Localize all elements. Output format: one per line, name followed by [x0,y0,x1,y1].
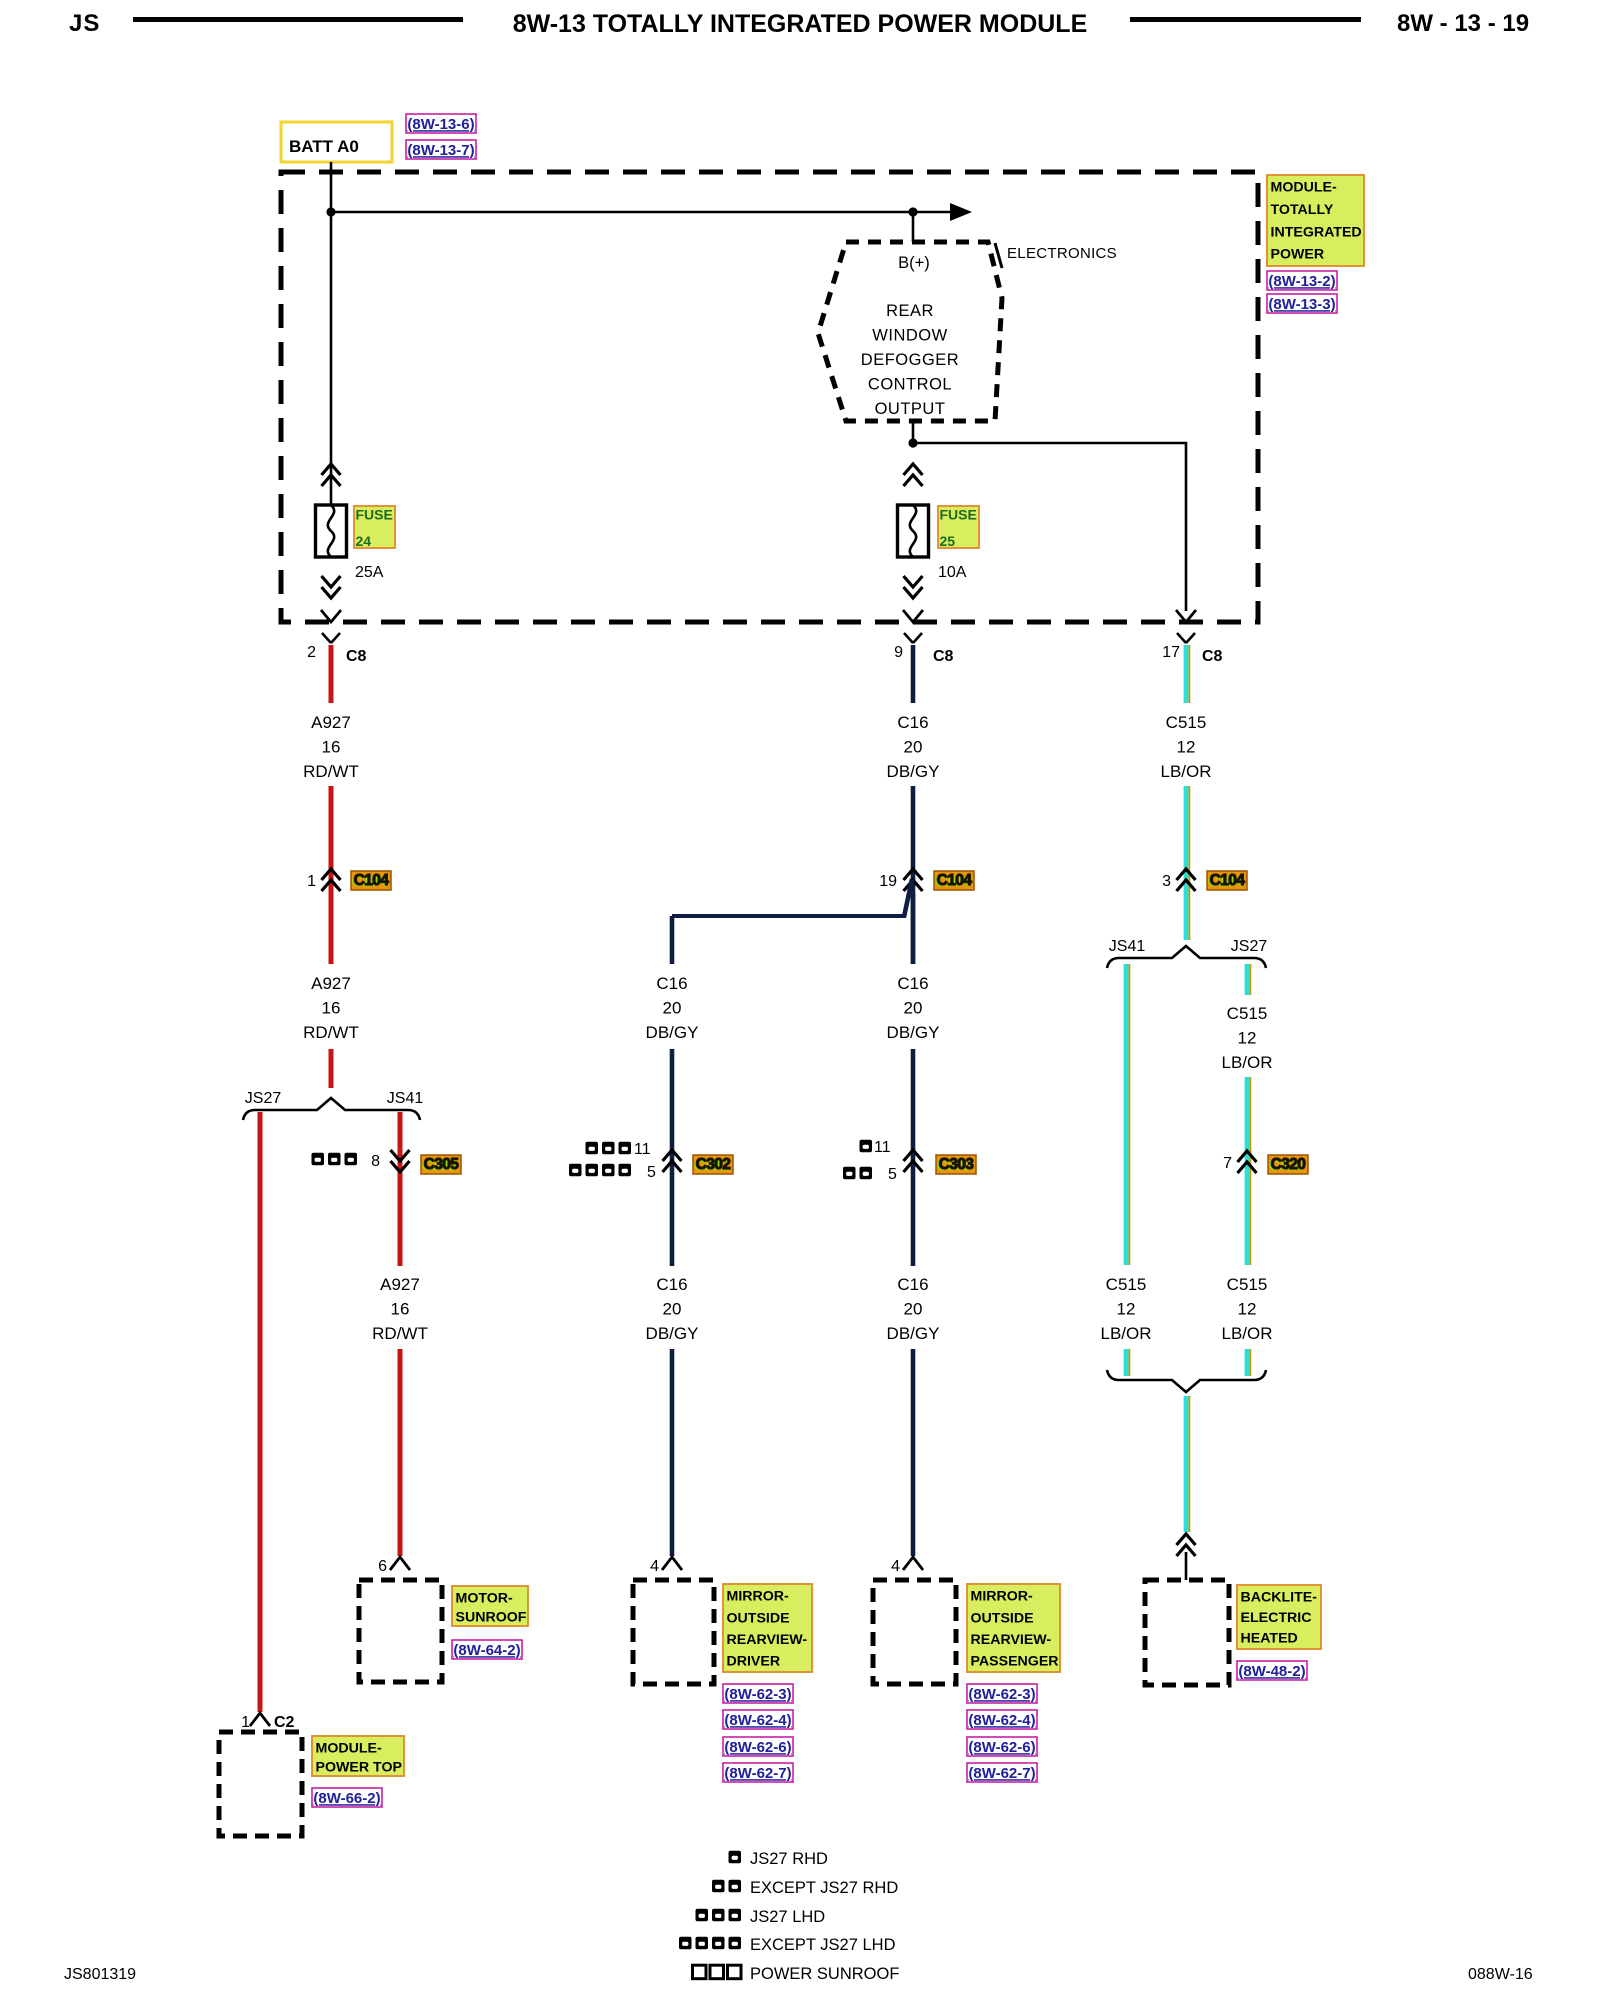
svg-text:(8W-66-2): (8W-66-2) [313,1790,380,1807]
wire C16 driver leg to C302 [670,1049,675,1266]
wire label C16 20 DB/GY [887,1275,940,1343]
option symbol 3-box JS27 LHD [586,1142,632,1155]
wire C16 from C8 pin 9 [911,645,916,703]
svg-text:C8: C8 [1202,648,1223,665]
svg-text:ELECTRONICS: ELECTRONICS [1007,245,1117,262]
svg-text:JS27 LHD: JS27 LHD [750,1908,825,1926]
wire junction to defogger output [912,212,915,242]
battery feed box BATT A0 [281,122,392,162]
wire C515 JS41 leg [1126,964,1129,1265]
legend symbol EXCEPT JS27 RHD [712,1880,741,1893]
in-line connector C104 pin 1 chevron [322,869,341,891]
in-line connector chevron at backlite [1177,1534,1196,1556]
device label MIRROR-OUTSIDE REARVIEW-PASSENGER [967,1584,1060,1672]
svg-text:A927: A927 [311,713,351,732]
option symbol 3-box JS27 LHD [312,1153,358,1166]
svg-text:20: 20 [663,999,682,1018]
svg-text:DB/GY: DB/GY [887,1324,940,1343]
svg-text:3: 3 [1162,873,1171,890]
connector C2 pin 1 at power top module [241,1713,294,1731]
link 8W-64-2 [452,1640,522,1659]
svg-text:MIRROR-: MIRROR- [971,1589,1034,1605]
fuse 24 [316,505,347,557]
chevron below fuse 24 [322,576,341,598]
connector label C104 [934,871,974,890]
svg-text:16: 16 [322,999,341,1018]
svg-text:19: 19 [879,873,897,890]
svg-text:5: 5 [647,1164,656,1181]
wire label C515 12 LB/OR [1221,1004,1272,1072]
svg-text:MODULE-: MODULE- [1271,180,1337,196]
wire C515 from C8 pin 17 [1186,645,1189,703]
svg-text:DEFOGGER: DEFOGGER [861,351,959,369]
svg-text:JS27: JS27 [245,1090,282,1107]
svg-text:CONTROL: CONTROL [868,376,952,394]
device label MIRROR-OUTSIDE REARVIEW-DRIVER [723,1584,812,1672]
connector C8 pin 17 [1162,633,1222,665]
legend symbol JS27 RHD [729,1851,742,1864]
connector label C104 [1207,871,1247,890]
wire into backlite grid [1185,1552,1188,1580]
wire label C16 20 DB/GY [887,713,940,781]
svg-text:C16: C16 [656,1275,687,1294]
svg-text:4: 4 [891,1558,900,1575]
svg-text:TOTALLY: TOTALLY [1271,202,1334,218]
wire C515 to backlite [1186,1396,1189,1532]
svg-text:EXCEPT JS27 LHD: EXCEPT JS27 LHD [750,1936,896,1954]
svg-text:C515: C515 [1166,713,1207,732]
svg-text:SUNROOF: SUNROOF [456,1610,527,1626]
option symbol 2-box EXCEPT JS27 RHD [843,1167,872,1180]
wire label A927 16 RD/WT [303,974,359,1042]
svg-text:REAR: REAR [886,302,934,320]
svg-text:C305: C305 [424,1156,460,1173]
svg-text:(8W-62-7): (8W-62-7) [724,1765,791,1782]
link 8W-62-4 [723,1710,793,1729]
BACKLITE-ELECTRIC HEATED device box [1145,1580,1229,1685]
link 8W-62-6 [723,1737,793,1756]
svg-text:C104: C104 [1210,872,1246,889]
connector pin 4 at driver mirror [650,1557,682,1575]
svg-text:C16: C16 [897,713,928,732]
svg-text:4: 4 [650,1558,659,1575]
wire label C515 12 LB/OR [1221,1275,1272,1343]
svg-text:12: 12 [1117,1300,1136,1319]
svg-text:OUTSIDE: OUTSIDE [971,1610,1034,1626]
svg-text:REARVIEW-: REARVIEW- [727,1632,808,1648]
svg-text:8W-13 TOTALLY INTEGRATED POWER: 8W-13 TOTALLY INTEGRATED POWER MODULE [513,10,1088,38]
wire A927 JS41 leg [398,1112,403,1266]
svg-text:FUSE: FUSE [940,507,977,523]
module label MODULE-TOTALLY INTEGRATED POWER [1267,175,1364,266]
svg-text:(8W-62-6): (8W-62-6) [968,1739,1035,1756]
svg-text:8W - 13 - 19: 8W - 13 - 19 [1397,10,1529,37]
svg-text:C8: C8 [933,648,954,665]
svg-text:20: 20 [904,999,923,1018]
connector label C305 [421,1155,461,1174]
option symbol 4-box EXCEPT JS27 LHD [569,1164,631,1177]
svg-text:25A: 25A [355,564,384,581]
svg-text:JS: JS [69,10,100,37]
svg-text:11: 11 [634,1141,651,1158]
wire C16 to C104 [911,786,916,964]
fuse 25 [898,505,929,557]
svg-text:POWER TOP: POWER TOP [316,1760,402,1776]
svg-text:MIRROR-: MIRROR- [727,1589,790,1605]
device label BACKLITE-ELECTRIC HEATED [1237,1585,1321,1649]
wire branch to C8 pin 17 [913,443,1186,611]
in-line connector C104 pin 19 chevron [904,869,923,891]
svg-text:7: 7 [1223,1155,1232,1172]
wire C515 JS27 leg lower stub [1247,1349,1250,1376]
arrowhead into C8 pin 2 [321,610,341,622]
chevron above fuse 25 [904,464,923,486]
svg-text:(8W-64-2): (8W-64-2) [453,1642,520,1659]
svg-text:BATT A0: BATT A0 [289,137,359,156]
module Totally Integrated Power Module dashed outline [281,172,1258,622]
wire C515 JS41 leg lower stub [1126,1349,1129,1376]
svg-text:DB/GY: DB/GY [646,1324,699,1343]
wire A927 to C104 [329,786,334,964]
svg-text:LB/OR: LB/OR [1221,1053,1272,1072]
svg-text:REARVIEW-: REARVIEW- [971,1632,1052,1648]
in-line connector C303 chevron [904,1150,923,1172]
wire C515 to C104 [1186,786,1189,940]
wire C16 to passenger mirror [911,1349,916,1556]
svg-text:WINDOW: WINDOW [872,327,947,345]
svg-text:25: 25 [940,533,956,549]
wire A927 from C8 pin 2 [329,645,334,703]
legend symbol POWER SUNROOF [693,1965,742,1979]
svg-text:JS27: JS27 [1231,938,1268,955]
link 8W-62-3 [723,1684,793,1703]
svg-text:C515: C515 [1227,1004,1268,1023]
wire label C16 20 DB/GY [646,1275,699,1343]
connector C8 pin 9 [894,633,953,665]
svg-text:8: 8 [371,1153,380,1170]
svg-text:(8W-13-3): (8W-13-3) [1268,296,1335,313]
svg-text:17: 17 [1162,644,1180,661]
wire label C16 20 DB/GY [646,974,699,1042]
junction node above defogger output [908,207,917,216]
connector label C104 [351,871,391,890]
svg-text:BACKLITE-: BACKLITE- [1241,1590,1318,1606]
MOTOR-SUNROOF device box [359,1580,442,1682]
svg-text:C16: C16 [897,1275,928,1294]
svg-text:POWER SUNROOF: POWER SUNROOF [750,1965,899,1983]
svg-text:C515: C515 [1227,1275,1268,1294]
wire label C515 12 LB/OR [1100,1275,1151,1343]
in-line connector C302 chevron [663,1150,682,1172]
svg-text:RD/WT: RD/WT [303,762,359,781]
arrowhead into C8 pin 9 [903,610,923,622]
wire label A927 16 RD/WT [303,713,359,781]
wire C16 driver leg drop [670,916,675,964]
svg-text:B(+): B(+) [898,254,930,272]
label FUSE 24 [354,506,395,549]
svg-text:JS801319: JS801319 [64,1966,136,1983]
link 8W-66-2 [312,1788,382,1807]
svg-text:(8W-62-3): (8W-62-3) [724,1686,791,1703]
link 8W-62-6 [967,1737,1037,1756]
link 8W-13-3 [1267,294,1337,313]
svg-text:1: 1 [241,1714,250,1731]
connector label C302 [693,1155,733,1174]
connector pin 6 at motor-sunroof [378,1557,410,1575]
svg-text:EXCEPT JS27 RHD: EXCEPT JS27 RHD [750,1879,898,1897]
svg-text:5: 5 [888,1166,897,1183]
svg-text:C16: C16 [897,974,928,993]
svg-text:LB/OR: LB/OR [1100,1324,1151,1343]
device label MOTOR-SUNROOF [452,1586,528,1626]
label FUSE 25 [938,506,979,549]
svg-text:PASSENGER: PASSENGER [971,1654,1059,1670]
wire A927 to sunroof motor [398,1349,403,1556]
svg-text:MODULE-: MODULE- [316,1741,382,1757]
wire battery feed A0 down to fuse 24 [330,162,333,505]
connector label C303 [936,1155,976,1174]
svg-text:(8W-62-6): (8W-62-6) [724,1739,791,1756]
wire C515 JS27 leg to C320 [1247,1077,1250,1265]
connector label C320 [1268,1155,1308,1174]
splice brace JS27 / JS41 [243,1090,423,1120]
wire C16 branch to driver mirror [672,914,906,918]
svg-text:(8W-13-7): (8W-13-7) [407,142,474,159]
MODULE-POWER TOP device box [219,1732,302,1836]
svg-text:DRIVER: DRIVER [727,1654,781,1670]
header rule left [133,17,463,22]
link 8W-48-2 [1237,1661,1307,1680]
svg-text:12: 12 [1238,1029,1257,1048]
wire label A927 16 RD/WT [372,1275,428,1343]
svg-text:24: 24 [356,533,372,549]
bus wire to electronics B(+) [331,203,972,221]
wire C515 JS27 leg upper [1247,964,1250,995]
wire label C515 12 LB/OR [1160,713,1211,781]
internal function REAR WINDOW DEFOGGER CONTROL OUTPUT [818,242,1002,421]
svg-text:(8W-13-6): (8W-13-6) [407,116,474,133]
svg-text:JS41: JS41 [1109,938,1146,955]
svg-text:C8: C8 [346,648,367,665]
svg-text:HEATED: HEATED [1241,1631,1298,1647]
svg-text:A927: A927 [311,974,351,993]
svg-text:DB/GY: DB/GY [887,1023,940,1042]
header rule right [1130,17,1361,22]
wire C16 branch diagonal [904,879,912,917]
svg-text:INTEGRATED: INTEGRATED [1271,224,1362,240]
svg-text:C16: C16 [656,974,687,993]
link 8W-13-2 [1267,271,1337,290]
svg-text:(8W-62-4): (8W-62-4) [724,1712,791,1729]
svg-text:20: 20 [904,738,923,757]
svg-text:9: 9 [894,644,903,661]
svg-text:1: 1 [307,873,316,890]
svg-text:POWER: POWER [1271,247,1325,263]
arrowhead into C8 pin 17 [1176,610,1196,622]
wire label C16 20 DB/GY [887,974,940,1042]
svg-text:(8W-62-3): (8W-62-3) [968,1686,1035,1703]
in-line connector C305 chevron [391,1150,410,1172]
svg-text:(8W-62-7): (8W-62-7) [968,1765,1035,1782]
connector pin 4 at passenger mirror [891,1557,923,1575]
svg-text:20: 20 [663,1300,682,1319]
svg-text:C303: C303 [939,1156,975,1173]
svg-text:6: 6 [378,1558,387,1575]
svg-text:LB/OR: LB/OR [1221,1324,1272,1343]
wire C16 to driver mirror [670,1349,675,1556]
svg-text:2: 2 [307,644,316,661]
svg-text:OUTPUT: OUTPUT [875,400,946,418]
svg-text:C302: C302 [696,1156,731,1173]
chevron above fuse 24 [322,464,341,486]
splice brace JS41 / JS27 [1107,938,1267,968]
svg-text:C104: C104 [354,872,390,889]
svg-text:088W-16: 088W-16 [1468,1966,1533,1983]
link 8W-13-6 [406,114,476,133]
svg-text:DB/GY: DB/GY [887,762,940,781]
in-line connector C320 pin 7 chevron [1238,1151,1257,1173]
svg-text:(8W-13-2): (8W-13-2) [1268,273,1335,290]
link 8W-62-7 [967,1763,1037,1782]
link 8W-13-7 [406,140,476,159]
svg-text:MOTOR-: MOTOR- [456,1591,514,1607]
wire A927 to splice brace [329,1049,334,1088]
chevron below fuse 25 [904,576,923,598]
svg-text:JS27 RHD: JS27 RHD [750,1850,828,1868]
junction node at battery feed [326,207,335,216]
device label MODULE-POWER TOP [312,1736,404,1776]
svg-text:C515: C515 [1106,1275,1147,1294]
svg-text:C2: C2 [274,1714,295,1731]
svg-text:C104: C104 [937,872,973,889]
wire A927 JS27 leg to C2 [258,1112,263,1712]
svg-text:(8W-62-4): (8W-62-4) [968,1712,1035,1729]
MIRROR-OUTSIDE REARVIEW-PASSENGER device box [873,1580,956,1684]
wire C16 passenger leg to C303 [911,1049,916,1266]
svg-text:RD/WT: RD/WT [303,1023,359,1042]
svg-text:A927: A927 [380,1275,420,1294]
link 8W-62-4 [967,1710,1037,1729]
legend symbol JS27 LHD [696,1909,742,1922]
label ELECTRONICS [995,243,1117,268]
svg-text:ELECTRIC: ELECTRIC [1241,1610,1312,1626]
MIRROR-OUTSIDE REARVIEW-DRIVER device box [633,1580,714,1684]
svg-text:16: 16 [391,1300,410,1319]
wire C16 passenger leg from C104 [911,893,916,964]
link 8W-62-7 [723,1763,793,1782]
svg-text:FUSE: FUSE [356,507,393,523]
svg-text:(8W-48-2): (8W-48-2) [1238,1663,1305,1680]
option symbol 1-box JS27 RHD [860,1140,873,1153]
in-line connector C104 pin 3 chevron [1177,869,1196,891]
merge brace to backlite feed [1107,1370,1266,1392]
svg-text:12: 12 [1177,738,1196,757]
svg-text:DB/GY: DB/GY [646,1023,699,1042]
svg-text:10A: 10A [938,564,967,581]
link 8W-62-3 [967,1684,1037,1703]
svg-text:LB/OR: LB/OR [1160,762,1211,781]
svg-text:OUTSIDE: OUTSIDE [727,1610,790,1626]
junction node below defogger output [908,438,917,447]
svg-text:RD/WT: RD/WT [372,1324,428,1343]
connector C8 pin 2 [307,633,366,665]
svg-text:12: 12 [1238,1300,1257,1319]
svg-text:JS41: JS41 [387,1090,424,1107]
svg-text:11: 11 [874,1139,891,1156]
wire defogger output to junction [912,421,915,443]
svg-text:20: 20 [904,1300,923,1319]
svg-text:C320: C320 [1271,1156,1306,1173]
svg-text:16: 16 [322,738,341,757]
legend symbol EXCEPT JS27 LHD [679,1937,741,1950]
